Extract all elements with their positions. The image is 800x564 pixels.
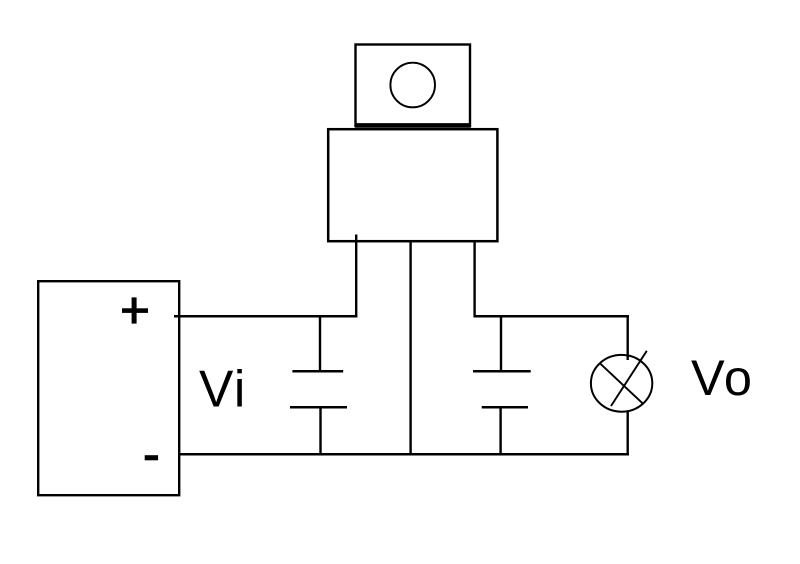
regulator U1 pin 1 lead (input) (355, 235, 357, 318)
capacitor C1 top lead (319, 316, 321, 372)
lamp DS1 bulb circle (591, 355, 652, 412)
lamp DS1 bottom lead (627, 412, 629, 456)
regulator U1 tab (356, 45, 471, 127)
svg-text:Vi: Vi (199, 360, 247, 418)
- terminal label (145, 455, 158, 460)
regulator U1 body (328, 129, 497, 241)
voltage source V1 (battery box) (38, 281, 179, 495)
capacitor C1 bottom plate (290, 406, 347, 409)
regulator U1 pin 2 lead (ground/common) (409, 242, 411, 455)
capacitor C1 top plate (292, 370, 343, 373)
regulator U1 mounting hole (390, 63, 435, 108)
wire: output node from pin 3 to lamp (474, 315, 630, 318)
svg-text:Vo: Vo (691, 349, 754, 406)
capacitor C2 top lead (500, 316, 502, 372)
capacitor C2 bottom lead (499, 407, 501, 455)
+ terminal label (122, 297, 148, 323)
regulator U1 pin 3 lead (output) (473, 242, 475, 318)
lamp DS1 cross stroke (top-right to bottom-left) (611, 351, 647, 406)
capacitor C1 bottom lead (319, 407, 321, 455)
lamp DS1 cross stroke (top-left to bottom-right) (599, 363, 643, 404)
wire: source + terminal to input node (174, 315, 357, 318)
capacitor C2 top plate (473, 370, 531, 373)
regulator U1 tab bottom bar (355, 123, 471, 128)
wire: lamp top lead down from output wire (627, 316, 629, 360)
capacitor C2 bottom plate (482, 406, 528, 409)
wire: bottom return bus from source - terminal to lamp (179, 453, 629, 456)
